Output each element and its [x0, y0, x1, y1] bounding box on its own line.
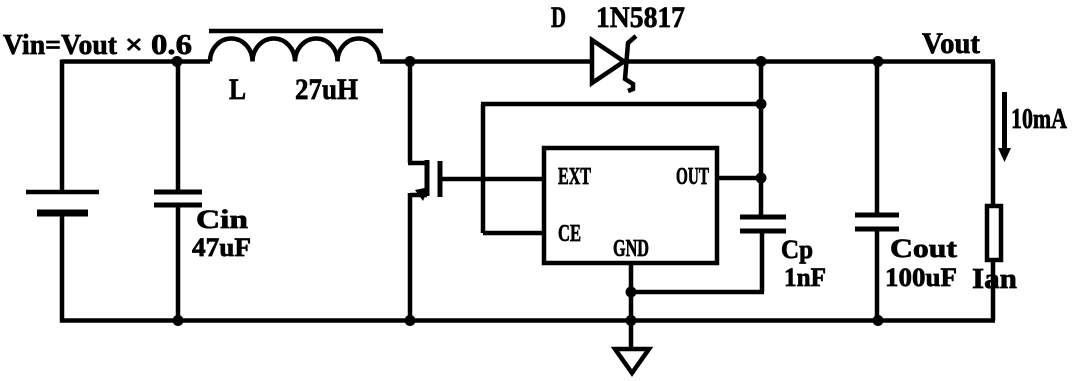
wire load resistor bottom lead — [991, 258, 996, 321]
wire Cp bottom lead — [760, 231, 765, 292]
svg-text:1nF: 1nF — [784, 263, 826, 292]
wire CE vertical riser — [481, 104, 486, 233]
wire battery negative lead to bottom rail — [60, 213, 65, 323]
wire CE to IC — [483, 231, 544, 236]
node drain top — [405, 56, 416, 67]
node feedback — [756, 99, 767, 110]
wire left vertical (battery positive lead) — [60, 60, 65, 193]
node source bottom — [405, 315, 416, 326]
current arrow 10mA — [998, 92, 1011, 162]
transistor Q1 gate bar — [438, 161, 443, 197]
wire right edge vertical (Vout to load resistor) — [991, 62, 996, 207]
svg-text:100uF: 100uF — [885, 263, 957, 292]
IC U1 body — [544, 148, 717, 263]
svg-text:Vout: Vout — [922, 27, 980, 60]
svg-text:L: L — [229, 73, 246, 106]
wire Cin top lead — [176, 62, 181, 193]
svg-text:Cin: Cin — [196, 205, 249, 234]
inductor L1 core bar — [209, 29, 383, 34]
svg-text:Cp: Cp — [781, 235, 813, 264]
battery B1 — [26, 192, 99, 213]
transistor Q1 drain lead — [408, 62, 413, 164]
capacitor Cout — [855, 215, 899, 229]
transistor Q1 source lead to bottom rail — [408, 193, 413, 321]
wire output node vertical (to Cp) — [759, 62, 764, 218]
wire Cp bottom to GND node — [631, 290, 764, 295]
node Cout bottom — [873, 315, 884, 326]
svg-text:CE: CE — [558, 221, 581, 247]
node OUT pin — [756, 173, 767, 184]
diode D1 schottky cathode — [625, 36, 636, 91]
svg-text:×: × — [125, 30, 143, 61]
capacitor Cin — [154, 192, 202, 205]
node Cout top — [873, 56, 884, 67]
wire top rail left segment — [62, 59, 210, 64]
transistor Q1 source arrow — [415, 187, 429, 201]
svg-text:0.6: 0.6 — [151, 30, 192, 61]
svg-text:1N5817: 1N5817 — [596, 1, 685, 34]
svg-text:27uH: 27uH — [295, 73, 358, 106]
svg-text:OUT: OUT — [676, 164, 709, 190]
node Vin/Cin top — [172, 56, 183, 67]
node GND/Cp — [626, 287, 637, 298]
svg-text:EXT: EXT — [558, 164, 591, 190]
wire gate to EXT pin — [442, 177, 544, 182]
label Vin=Vout x 0.6 — [3, 30, 192, 61]
resistor RL (load) — [987, 206, 1001, 260]
wire feedback top (CE riser to output node) — [481, 102, 761, 107]
wire bottom rail — [60, 318, 995, 323]
wire Cin bottom lead — [176, 205, 181, 321]
svg-text:47uF: 47uF — [192, 233, 251, 262]
diode D1 triangle — [592, 40, 624, 83]
wire OUT pin to output node — [717, 176, 761, 181]
capacitor Cp — [740, 217, 786, 231]
node GND bottom — [626, 315, 637, 326]
node Cin bottom — [173, 315, 184, 326]
transistor Q1 channel bar — [425, 160, 430, 196]
svg-text:Vin=Vout: Vin=Vout — [3, 30, 118, 61]
transistor Q1 drain jog — [408, 161, 427, 166]
wire top rail middle segment (inductor to diode anode) — [380, 59, 592, 64]
wire GND pin lead — [629, 263, 634, 350]
svg-text:Cout: Cout — [890, 234, 957, 263]
svg-text:Ian: Ian — [972, 264, 1017, 295]
transistor Q1 source wire — [410, 193, 427, 198]
inductor L1 coil — [210, 39, 380, 62]
ground symbol — [615, 349, 649, 373]
svg-text:10mA: 10mA — [1011, 104, 1068, 135]
node junction dots — [172, 56, 884, 326]
svg-text:D: D — [551, 1, 566, 34]
node output top — [756, 56, 767, 67]
wire top rail right segment (diode cathode to top-right corner) — [626, 59, 995, 64]
svg-text:GND: GND — [613, 236, 649, 262]
wire Cout bottom lead — [875, 229, 880, 321]
wire Cout top lead — [875, 62, 880, 216]
